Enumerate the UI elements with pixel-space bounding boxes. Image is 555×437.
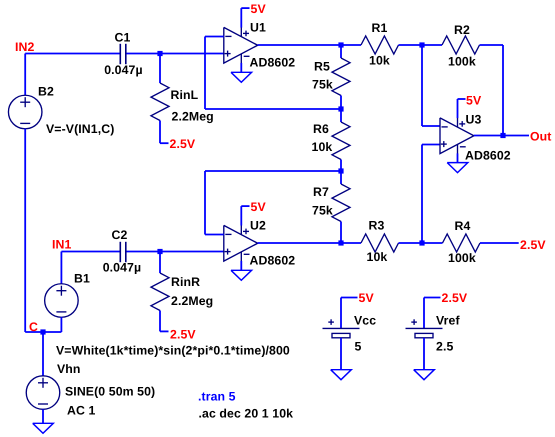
svg-text:.ac dec 20 1 10k: .ac dec 20 1 10k [199, 407, 294, 421]
svg-text:R7: R7 [313, 185, 329, 199]
svg-text:RinL: RinL [171, 88, 199, 102]
wire [24, 129, 26, 332]
wire [61, 251, 119, 253]
wire 5V flag Vcc [340, 298, 342, 329]
ground U1 [231, 72, 252, 82]
resistor RinR [151, 273, 169, 311]
wire [340, 45, 342, 58]
wire [480, 44, 504, 46]
svg-text:100k: 100k [448, 251, 476, 265]
svg-text:B2: B2 [38, 85, 54, 99]
junction node R1-R2 [419, 42, 424, 47]
wire [457, 153, 459, 162]
wire [399, 44, 423, 46]
ground Vcc [331, 370, 352, 380]
svg-text:R1: R1 [372, 21, 388, 35]
resistor R2 [442, 36, 480, 54]
op-amp U2 [224, 225, 258, 261]
wire [25, 53, 119, 55]
svg-text:C: C [29, 320, 38, 334]
junction node R5-R6 [338, 106, 343, 111]
svg-text:Vref: Vref [436, 314, 460, 328]
vsource Vhn [26, 376, 60, 410]
resistor R7 [332, 184, 350, 222]
ground U2 [231, 270, 252, 280]
wire output U3 [474, 135, 529, 137]
junction node C2-RinR [157, 249, 162, 254]
wire [341, 44, 361, 46]
wire [159, 121, 161, 144]
wire [340, 338, 342, 370]
svg-text:R2: R2 [454, 23, 470, 37]
wire [341, 242, 361, 244]
resistor R3 [361, 234, 399, 252]
svg-text:Out: Out [530, 130, 551, 144]
svg-text:U2: U2 [250, 219, 266, 233]
wire 5V flag U1 [240, 8, 242, 28]
wire [159, 252, 161, 274]
svg-text:Vhn: Vhn [57, 362, 81, 376]
svg-text:AD8602: AD8602 [465, 149, 511, 163]
battery Vcc [323, 327, 360, 329]
svg-text:R6: R6 [313, 122, 329, 136]
svg-text:2.5V: 2.5V [170, 328, 196, 342]
resistor R5 [332, 58, 350, 96]
svg-text:SINE(0 50m 50): SINE(0 50m 50) [65, 385, 155, 399]
wire 5V flag U2 [240, 206, 242, 225]
wire [340, 96, 342, 110]
svg-text:RinR: RinR [171, 275, 200, 289]
capacitor C1 [119, 44, 121, 64]
bsource B2 [8, 95, 42, 129]
svg-text:V=-V(IN1,C): V=-V(IN1,C) [46, 122, 114, 136]
svg-text:2.5: 2.5 [436, 340, 453, 354]
junction node U1 out [338, 42, 343, 47]
svg-text:AC 1: AC 1 [67, 404, 95, 418]
wire [240, 63, 242, 72]
wire output U1 [258, 44, 341, 46]
svg-text:5V: 5V [359, 291, 375, 305]
svg-text:0.047µ: 0.047µ [104, 63, 142, 77]
resistor R6 [332, 122, 350, 160]
ground Vref [414, 370, 435, 380]
wire [423, 338, 425, 370]
junction node R3-R4 [419, 240, 424, 245]
svg-text:IN1: IN1 [52, 238, 71, 252]
junction node C [40, 329, 45, 334]
junction node Out [500, 133, 505, 138]
svg-text:V=White(1k*time)*sin(2*pi*0.1*: V=White(1k*time)*sin(2*pi*0.1*time)/800 [56, 344, 290, 358]
wire [60, 317, 62, 332]
wire feedback U1 [205, 36, 224, 38]
wire 5V flag U3 [457, 99, 459, 118]
svg-text:10k: 10k [312, 140, 333, 154]
svg-text:AD8602: AD8602 [250, 254, 296, 268]
svg-text:10k: 10k [367, 250, 388, 264]
svg-text:2.2Meg: 2.2Meg [171, 294, 213, 308]
svg-text:U1: U1 [250, 21, 266, 35]
wire [60, 252, 62, 284]
wire [422, 242, 443, 244]
bsource B1 [45, 284, 79, 318]
wire [159, 54, 161, 84]
svg-text:IN2: IN2 [15, 40, 34, 54]
wire [240, 261, 242, 270]
svg-text:5V: 5V [251, 2, 267, 16]
wire [340, 160, 342, 172]
op-amp U3 [440, 118, 474, 154]
wire 2.5V flag Vref [423, 298, 425, 329]
battery Vref [406, 327, 443, 329]
capacitor C2 [119, 242, 121, 262]
svg-text:5: 5 [355, 340, 362, 354]
resistor RinL [151, 83, 169, 121]
svg-text:R4: R4 [455, 219, 471, 233]
resistor R1 [361, 36, 399, 54]
svg-text:2.2Meg: 2.2Meg [172, 110, 214, 124]
svg-text:100k: 100k [448, 55, 476, 69]
wire output U2 [258, 242, 341, 244]
wire [340, 171, 342, 184]
wire U3 noninv input [422, 144, 440, 146]
svg-text:75k: 75k [312, 204, 333, 218]
svg-text:U3: U3 [466, 113, 482, 127]
svg-text:2.5V: 2.5V [520, 238, 546, 252]
svg-text:75k: 75k [312, 78, 333, 92]
junction node C1-RinL [157, 51, 162, 56]
wire U3 inv input [421, 45, 423, 126]
junction node U2 out [338, 240, 343, 245]
svg-text:5V: 5V [466, 94, 482, 108]
wire [422, 44, 442, 46]
svg-text:0.047µ: 0.047µ [103, 261, 141, 275]
wire [340, 222, 342, 244]
svg-text:10k: 10k [369, 54, 390, 68]
svg-text:5V: 5V [251, 200, 267, 214]
svg-text:2.5V: 2.5V [442, 291, 468, 305]
svg-text:Vcc: Vcc [354, 314, 376, 328]
wire [42, 409, 44, 423]
svg-text:R3: R3 [369, 219, 385, 233]
wire [399, 242, 423, 244]
wire [24, 54, 26, 96]
svg-text:AD8602: AD8602 [250, 56, 296, 70]
wire feedback U2 [205, 234, 224, 236]
svg-text:C1: C1 [115, 31, 131, 45]
svg-text:.tran 5: .tran 5 [198, 390, 236, 404]
wire [159, 311, 161, 332]
op-amp U1 [224, 27, 258, 63]
wire [42, 332, 44, 376]
wire [127, 251, 224, 253]
ground U3 [447, 163, 468, 173]
svg-text:R5: R5 [314, 60, 330, 74]
svg-text:2.5V: 2.5V [170, 137, 196, 151]
ground Vhn [33, 423, 54, 433]
svg-text:C2: C2 [112, 228, 128, 242]
junction node R6-R7 [338, 168, 343, 173]
resistor R4 [443, 234, 481, 252]
svg-text:B1: B1 [74, 272, 90, 286]
wire [127, 53, 224, 55]
wire [480, 242, 519, 244]
wire [340, 109, 342, 122]
